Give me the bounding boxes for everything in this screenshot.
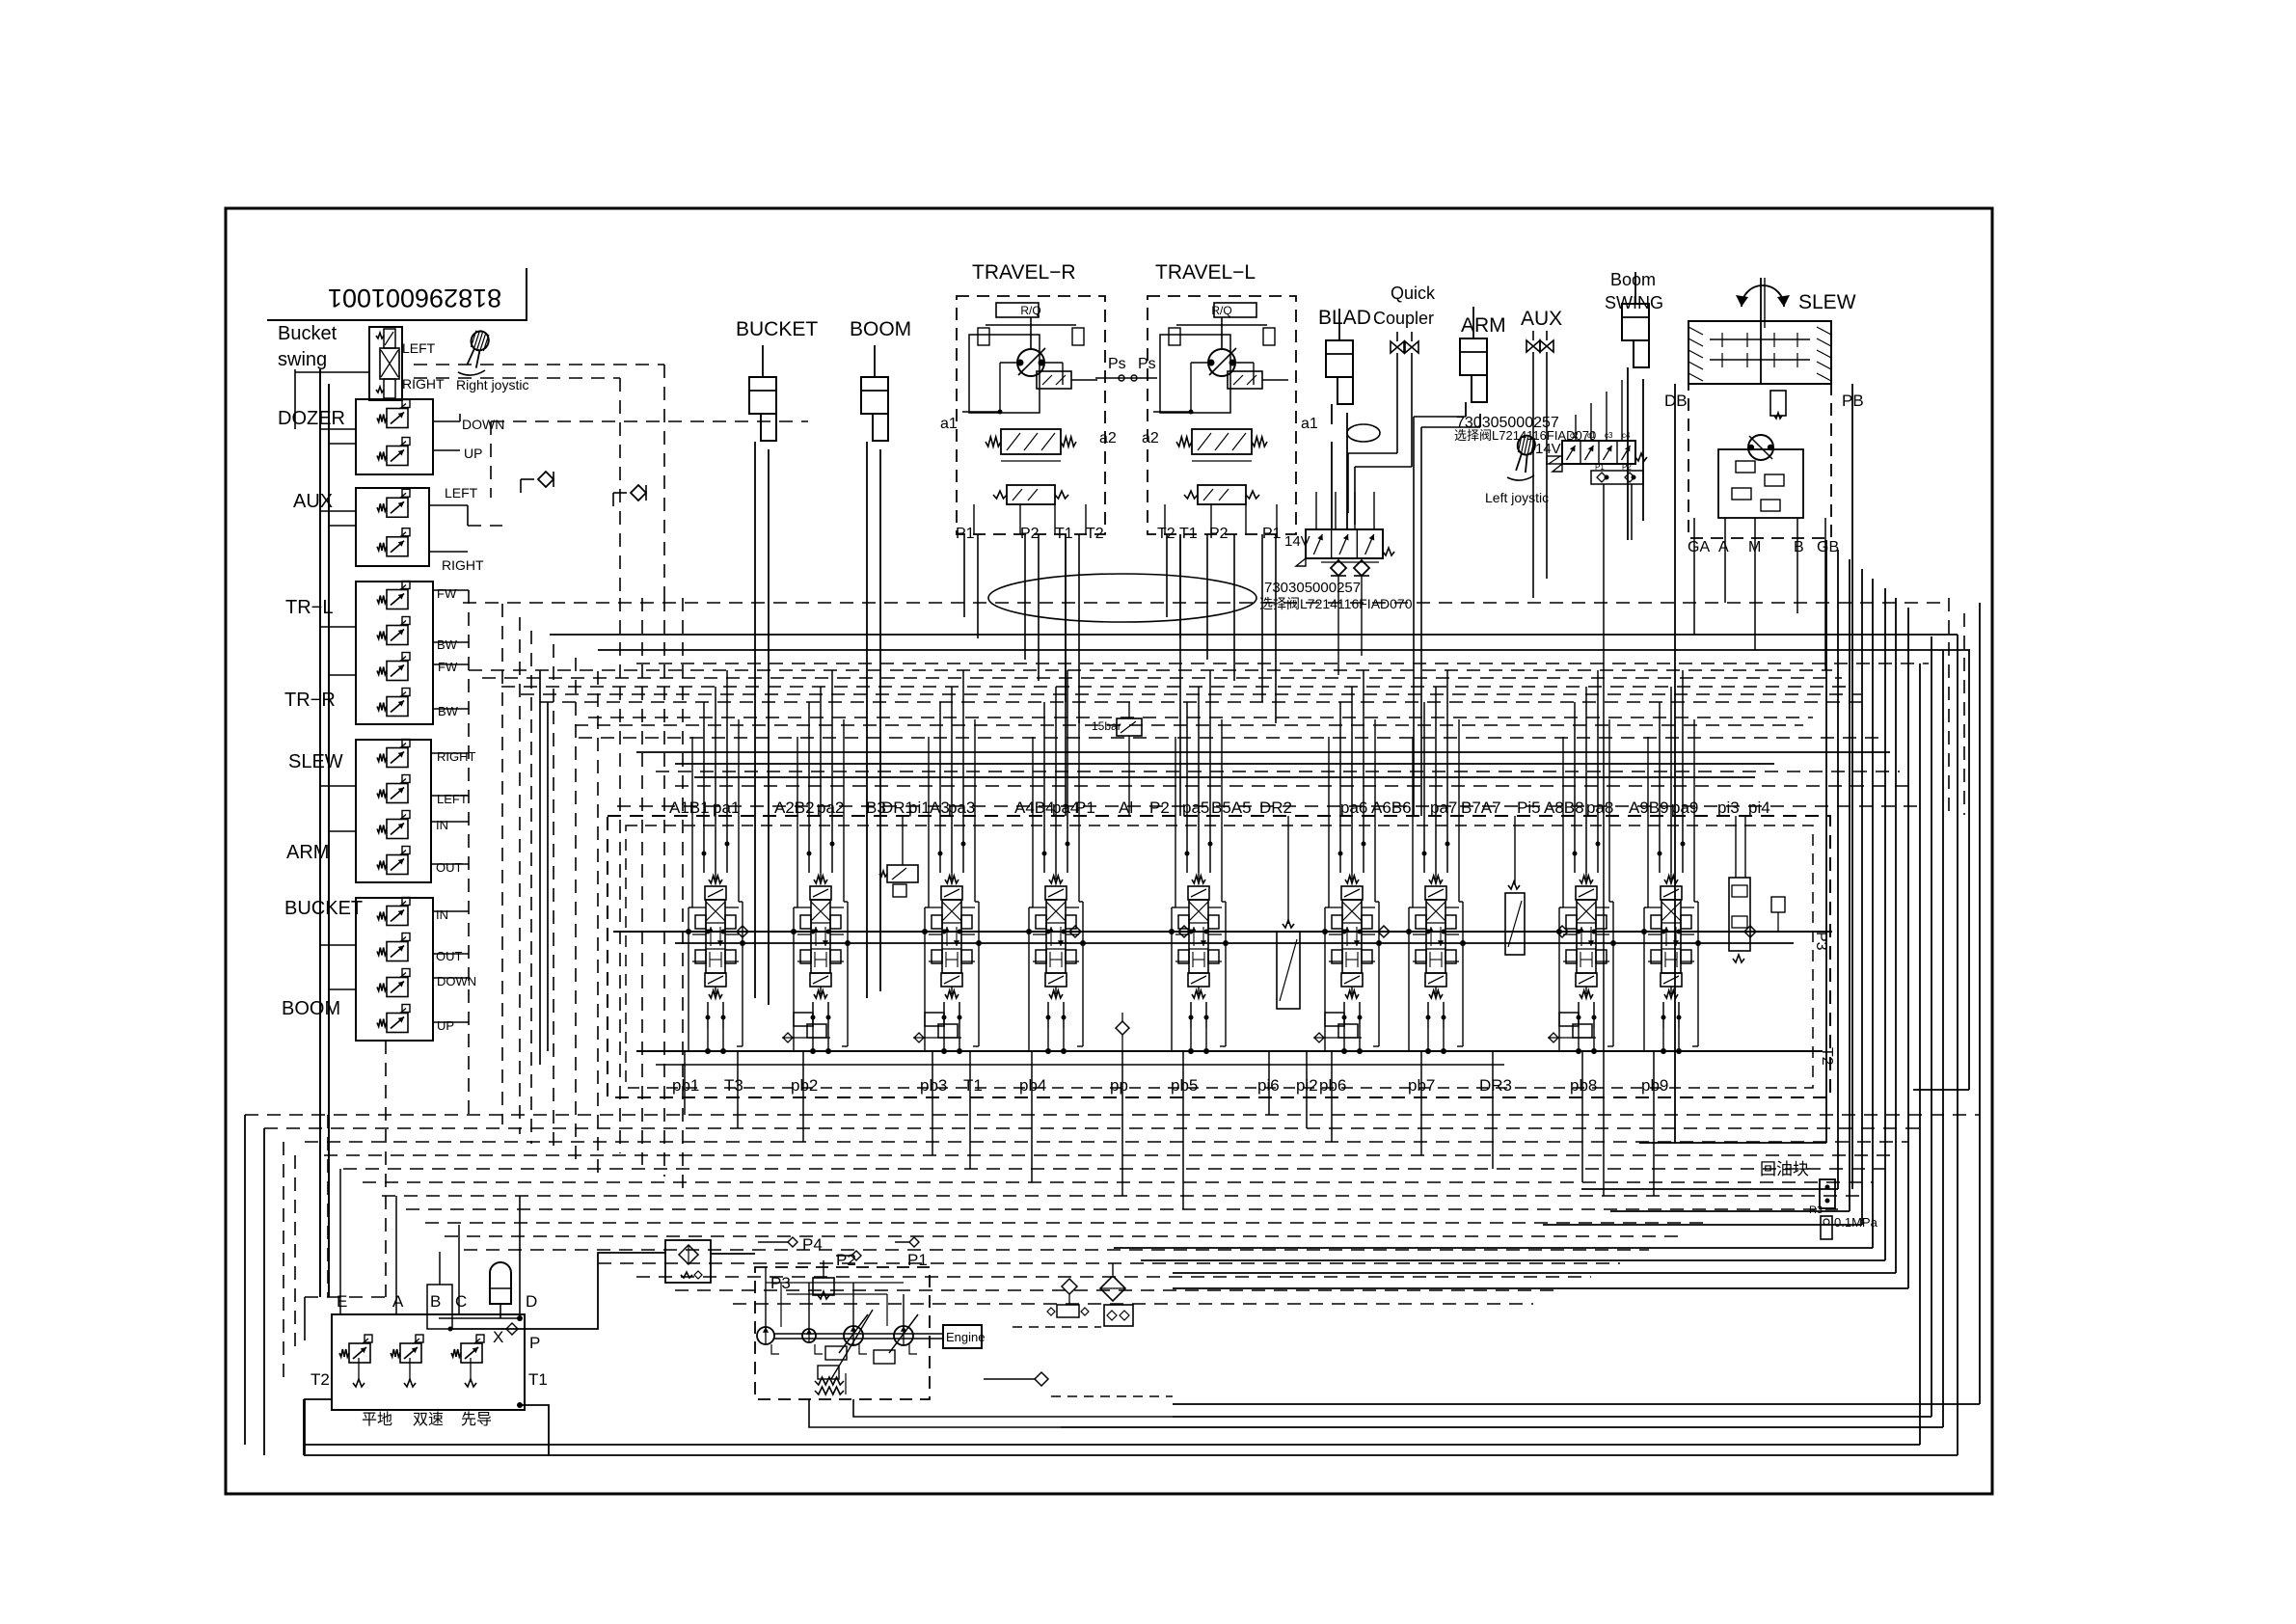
svg-text:BW: BW [437, 637, 458, 652]
svg-text:OUT: OUT [436, 949, 463, 963]
tank box [1104, 1305, 1133, 1326]
upper dashed bus 1 [463, 602, 1948, 604]
Engine box [943, 1325, 982, 1348]
block bottom line [332, 1409, 525, 1411]
svg-text:TR−R: TR−R [284, 690, 336, 711]
svg-text:c4: c4 [1622, 431, 1631, 440]
main spool valve section 4 [1049, 876, 1063, 883]
blad cylinder [1338, 309, 1340, 340]
svg-text:B5A5: B5A5 [1211, 798, 1252, 817]
main spool valve section 6 [1345, 876, 1359, 883]
section bottom relief clusters [794, 1013, 813, 1026]
quick coupler lines [1396, 353, 1398, 453]
svg-text:Boom: Boom [1610, 270, 1656, 289]
main spool valve section 5 [1192, 876, 1205, 883]
svg-text:pb6: pb6 [1319, 1076, 1346, 1095]
svg-text:DOWN: DOWN [437, 974, 476, 988]
block feed E from bundle [339, 1169, 341, 1314]
slew rotation circle [1742, 285, 1784, 307]
right band elbow verticals [1968, 650, 1970, 1090]
svg-text:BOOM: BOOM [850, 318, 911, 340]
wires travel pilots [433, 589, 469, 591]
dashed vertical pilot drop b [619, 378, 621, 598]
check valve pilot2 [631, 485, 646, 501]
svg-text:P2: P2 [1020, 526, 1040, 542]
upper manifold top feeds [1575, 415, 1577, 441]
svg-text:730305000257: 730305000257 [1264, 580, 1361, 596]
left bus vertical line A [319, 369, 321, 1297]
svg-text:pb9: pb9 [1641, 1076, 1668, 1095]
svg-text:P1: P1 [1075, 798, 1095, 817]
upper solid bus 4 [675, 763, 1774, 765]
blad small ellipse [1347, 424, 1380, 442]
svg-text:DOZER: DOZER [278, 408, 345, 429]
bottom left rail down [303, 1399, 305, 1455]
svg-text:OUT: OUT [436, 860, 463, 875]
main spool valve section 7 [1429, 876, 1443, 883]
dashed line dozer DOWN [491, 420, 808, 422]
svg-text:LEFT: LEFT [402, 340, 436, 356]
wires bucket/boom pilots [433, 910, 469, 912]
svg-text:AUX: AUX [1521, 308, 1562, 330]
travel left motor unit [1148, 296, 1296, 534]
svg-text:SLEW: SLEW [288, 751, 343, 772]
svg-text:a2: a2 [1142, 430, 1159, 447]
svg-text:A: A [392, 1292, 404, 1311]
anti-cavitation symbol near pp [1116, 1021, 1129, 1035]
pump port check P2 [851, 1251, 861, 1260]
tank dashed level line [1013, 1326, 1101, 1328]
svg-text:c2: c2 [1570, 431, 1579, 440]
bucket cylinder lines [754, 442, 756, 998]
pb port drop wires [684, 1051, 686, 1105]
pi3 relief [1771, 897, 1785, 912]
tank filter diamond [1100, 1276, 1125, 1301]
svg-text:T1: T1 [1179, 526, 1198, 542]
left bus vertical line B [328, 384, 330, 1297]
svg-text:pb8: pb8 [1570, 1076, 1597, 1095]
quick coupler shutoff valve 1 [1396, 332, 1398, 341]
svg-text:P: P [529, 1334, 540, 1352]
lower manifold outlet drops [1337, 576, 1339, 675]
pump internal manifold lines [766, 1282, 904, 1284]
svg-text:P1: P1 [956, 526, 975, 542]
travel port drop lines [963, 534, 965, 617]
dozer pilot valve block [356, 399, 433, 474]
lower collector line 2 [656, 1064, 1504, 1066]
travel right motor unit [957, 296, 1105, 534]
svg-text:818296001001: 818296001001 [328, 284, 501, 312]
main bus pressure line [613, 931, 1832, 933]
svg-text:swing: swing [278, 349, 327, 370]
svg-text:A8B8: A8B8 [1544, 798, 1584, 817]
svg-text:pb3: pb3 [920, 1076, 947, 1095]
svg-text:TRAVEL−R: TRAVEL−R [972, 261, 1076, 284]
svg-text:UP: UP [464, 446, 482, 461]
main control valve outer dashed boundary [608, 816, 1830, 1097]
svg-text:pa7: pa7 [1430, 798, 1457, 817]
bundle dashed line 15 [733, 1303, 1533, 1305]
svg-text:R/Q: R/Q [1020, 304, 1040, 317]
upper dashed bus 11 [588, 717, 1813, 718]
bundle dashed line 12 [598, 1262, 1620, 1264]
bundle dashed line 1 [245, 1114, 1980, 1116]
wires aux ports [429, 504, 468, 506]
quick coupler shutoff valve 2 [1411, 332, 1413, 341]
svg-text:GB: GB [1817, 539, 1839, 555]
svg-text:ARM: ARM [1461, 314, 1506, 337]
svg-text:C: C [455, 1292, 467, 1311]
svg-text:RIGHT: RIGHT [437, 749, 476, 764]
right joystick icon [463, 329, 491, 369]
bus junction dots [686, 929, 691, 934]
svg-text:DR3: DR3 [1479, 1076, 1512, 1095]
svg-text:Pi5: Pi5 [1517, 798, 1541, 817]
pump control boxes [825, 1346, 847, 1360]
big ellipse pilot group [988, 574, 1256, 622]
pump circle 2 [802, 1329, 816, 1342]
lower manifold feeds [1315, 492, 1317, 529]
boom swing cylinder [1634, 272, 1636, 304]
gear shafts [1710, 338, 1810, 340]
svg-text:T1: T1 [528, 1370, 548, 1389]
dashed vertical pilot drop a [663, 365, 665, 598]
svg-text:TRAVEL−L: TRAVEL−L [1155, 261, 1256, 284]
svg-text:先导: 先导 [461, 1411, 492, 1428]
return loop 7 [1895, 598, 1897, 1273]
bundle dashed line 6 [363, 1181, 1873, 1183]
return deep loop 3 [1942, 650, 1944, 1427]
svg-text:AUX: AUX [293, 491, 333, 512]
return deep loop 4 [1919, 663, 1921, 1445]
filter outlet line [711, 1253, 755, 1255]
solenoid valve A [391, 1349, 400, 1357]
bundle left verticals [244, 1115, 246, 1445]
boom cylinder [874, 345, 876, 377]
upper dashed bus 7 [579, 737, 1880, 739]
boom cylinder lines [866, 442, 868, 998]
pump circle 3 (variable) [844, 1326, 863, 1345]
DR2 pilot spool [1277, 932, 1300, 1009]
Ps connecting line [1095, 377, 1157, 379]
svg-text:FW: FW [437, 586, 457, 601]
svg-text:0.1MPa: 0.1MPa [1834, 1215, 1878, 1230]
accumulator [490, 1262, 511, 1304]
travel deep feed lines [1065, 534, 1067, 816]
pilot dashed drop lines to manifold bundle [468, 590, 470, 1115]
arm cylinder lines [1465, 402, 1467, 417]
valve section lower drop wires [707, 1028, 709, 1051]
lower manifold check valves [1331, 560, 1346, 576]
svg-text:D: D [526, 1292, 537, 1311]
svg-text:BW: BW [438, 704, 459, 718]
svg-text:IN: IN [436, 907, 448, 922]
svg-text:Engine: Engine [946, 1330, 985, 1344]
svg-text:T1: T1 [1055, 526, 1073, 542]
upper solenoid manifold [1562, 441, 1635, 464]
upper dashed bus 12 [575, 724, 1803, 726]
wire bucket-swing to bus [295, 371, 369, 373]
bucket-boom pilot valve block [356, 898, 433, 1041]
svg-text:a1: a1 [1301, 416, 1318, 432]
left joystick icon [1512, 434, 1537, 474]
main spool valve section 1 [709, 876, 722, 883]
Pi5 pilot valve [1505, 893, 1525, 955]
block feed A from bundle [395, 1196, 397, 1314]
slew-arm pilot valve block [356, 740, 431, 882]
slew relief capsule [1770, 391, 1786, 416]
svg-text:Al: Al [1119, 798, 1133, 817]
return loop 5 [1872, 579, 1874, 1248]
svg-text:回油块: 回油块 [1760, 1160, 1809, 1178]
upper solid bus 5 [694, 776, 1755, 778]
svg-text:P2: P2 [1209, 526, 1229, 542]
svg-text:BLAD: BLAD [1318, 307, 1371, 329]
return deep loop 5 [1957, 635, 1958, 1455]
pump shaft [774, 1333, 943, 1335]
slew gearbox [1688, 321, 1831, 384]
bundle dashed line 3 [305, 1141, 1908, 1143]
svg-text:Quick: Quick [1391, 284, 1436, 303]
svg-text:pb5: pb5 [1171, 1076, 1198, 1095]
bucket swing pilot valve V1 [369, 327, 402, 400]
bundle dashed line 11 [464, 1249, 1649, 1251]
svg-text:RIGHT: RIGHT [442, 557, 484, 573]
pilot block dashed top [339, 1313, 525, 1315]
return deep loop 1 [1979, 603, 1981, 1404]
right dashed verticals [1948, 598, 1950, 815]
upper dashed bus 9 [675, 785, 1909, 787]
svg-text:T2: T2 [1086, 526, 1104, 542]
swash plate lines [831, 1310, 873, 1379]
pump circle 1 [757, 1327, 774, 1344]
svg-text:GA: GA [1688, 539, 1710, 555]
pump port check P1 [909, 1237, 919, 1247]
upper dashed bus 13 [636, 663, 1929, 664]
svg-text:pb4: pb4 [1019, 1076, 1046, 1095]
15bar pilot relief valve [1117, 718, 1142, 736]
breather symbol [1062, 1279, 1077, 1294]
svg-text:X: X [493, 1328, 503, 1346]
upper dashed bus 10 [617, 805, 1919, 807]
upper dashed bus 3 [482, 677, 1842, 679]
return oil block [1820, 1179, 1835, 1208]
travel pilot valve block TR [356, 582, 433, 724]
svg-text:E: E [337, 1292, 347, 1311]
title block part number box [267, 268, 527, 320]
aux lines [1532, 352, 1534, 598]
return loop 4 [1861, 569, 1863, 1225]
bundle dashed line 8 [406, 1208, 1838, 1210]
pump relief valve [813, 1278, 834, 1295]
DR1 pilot valve [887, 865, 918, 882]
slew dashed box [1688, 384, 1831, 538]
solenoid valve E [339, 1349, 349, 1357]
svg-text:pp: pp [1110, 1076, 1128, 1095]
check valve pilot1 [538, 472, 554, 487]
svg-text:B: B [430, 1292, 441, 1311]
main valve inner dashed boundary [626, 826, 1813, 1088]
bucket cylinder [762, 345, 764, 377]
arm cylinder [1472, 307, 1474, 338]
svg-text:平地: 平地 [362, 1411, 392, 1428]
svg-text:IN: IN [436, 818, 448, 832]
block feed B [439, 1252, 441, 1285]
svg-text:a2: a2 [1099, 430, 1117, 447]
svg-text:BUCKET: BUCKET [284, 898, 363, 919]
svg-text:R3: R3 [1809, 1204, 1823, 1216]
slew motor circle [1748, 435, 1773, 460]
svg-text:Ps: Ps [1108, 356, 1126, 372]
return loop 6 [1884, 588, 1886, 1260]
upper manifold outlet drops [1603, 484, 1605, 1196]
suction check [1035, 1372, 1048, 1386]
lower solenoid manifold [1306, 529, 1383, 558]
main spool valve section 9 [1664, 876, 1678, 883]
svg-text:DOWN: DOWN [462, 417, 504, 432]
svg-text:T2: T2 [311, 1370, 330, 1389]
return loop 8 [1907, 608, 1909, 1288]
svg-text:B: B [1794, 539, 1804, 555]
return loop 1 [1825, 540, 1827, 1143]
svg-text:SLEW: SLEW [1798, 291, 1856, 313]
svg-text:P1: P1 [1262, 526, 1282, 542]
dashed drop x340 [327, 1115, 329, 1297]
svg-text:DR2: DR2 [1259, 798, 1292, 817]
inline filter box [665, 1240, 711, 1283]
T1 wire down right [520, 1405, 549, 1455]
svg-text:a1: a1 [940, 416, 958, 432]
block feed C from bundle [458, 1225, 460, 1314]
bundle dashed line 13 [636, 1276, 1591, 1278]
svg-text:FW: FW [438, 660, 458, 674]
svg-text:UP: UP [437, 1018, 454, 1033]
upper dashed bus 4 [501, 686, 1851, 688]
svg-text:ARM: ARM [286, 842, 329, 863]
svg-text:R/Q: R/Q [1211, 304, 1231, 317]
upper manifold solenoid foot [1547, 456, 1562, 464]
T2 wire [305, 1399, 332, 1454]
svg-text:pi3: pi3 [1717, 798, 1740, 817]
svg-text:B7A7: B7A7 [1461, 798, 1501, 817]
bank check valves on bus [737, 926, 748, 937]
lower collector line [636, 1050, 1823, 1052]
svg-text:T3: T3 [724, 1076, 743, 1095]
svg-text:P4: P4 [802, 1235, 823, 1254]
block B rect [427, 1285, 452, 1329]
svg-text:LEFT: LEFT [445, 485, 478, 501]
pilot supply block outline [332, 1314, 525, 1410]
svg-text:TR−L: TR−L [285, 597, 333, 618]
wires dozer ports [433, 420, 460, 422]
pilot dashed drops right set [619, 598, 621, 1153]
main spool valve section 2 [814, 876, 827, 883]
check valve near D [506, 1323, 518, 1335]
svg-text:选择阀L7214116FIAD070: 选择阀L7214116FIAD070 [1259, 596, 1413, 611]
solenoid valve C [451, 1349, 461, 1357]
upper manifold lower bracket [1591, 471, 1643, 484]
svg-text:A9B9: A9B9 [1629, 798, 1669, 817]
slew port lines [1693, 518, 1695, 635]
pump circle 4 (variable) [894, 1326, 913, 1345]
dashed pilot line from bucket swing right [414, 364, 664, 365]
aux shutoff valve 2 [1546, 331, 1548, 340]
svg-text:pb1: pb1 [672, 1076, 699, 1095]
dashed region frame around pilot block bottom [385, 1041, 387, 1297]
main spool valve section 8 [1580, 876, 1593, 883]
bundle dashed line 9 [425, 1222, 1707, 1224]
upper dashed bus 6 [540, 701, 1871, 703]
pb drops into bundle [684, 1105, 686, 1115]
bundle dashed line 5 [343, 1168, 1885, 1170]
return deep loop 2 [1931, 636, 1932, 1417]
svg-text:15bar: 15bar [1092, 719, 1121, 733]
wires slew/arm pilots [431, 752, 469, 754]
main spool valve section 3 [945, 876, 959, 883]
bundle dashed line 4 [324, 1154, 1896, 1156]
svg-text:T1: T1 [963, 1076, 983, 1095]
pump outlet lines [765, 1267, 767, 1327]
upper solid bus 1 [550, 634, 1958, 636]
aux pilot valve block [356, 488, 429, 566]
slew inner valve box [1718, 449, 1803, 518]
return loop 2 [1837, 550, 1839, 1189]
pump bottom connection [853, 1399, 1173, 1417]
bundle dashed line 2 [264, 1127, 1920, 1129]
breather box [1057, 1305, 1079, 1317]
aux shutoff valve 1 [1532, 331, 1534, 340]
upper dashed bus 5 [521, 693, 1861, 695]
svg-text:pi4: pi4 [1748, 798, 1770, 817]
left bank solid feeders [539, 670, 541, 1065]
svg-text:A6B6: A6B6 [1371, 798, 1412, 817]
drawing border frame [226, 208, 1992, 1494]
blad cylinder lines [1331, 404, 1333, 424]
svg-text:Bucket: Bucket [278, 323, 338, 344]
upper dashed bus 2 [469, 669, 1832, 671]
wire D to accumulator junction [439, 1317, 520, 1319]
boom swing lines [1627, 367, 1629, 540]
svg-text:14V: 14V [1535, 441, 1561, 457]
svg-text:BOOM: BOOM [282, 998, 340, 1019]
svg-text:A: A [1718, 539, 1729, 555]
svg-text:A4B4: A4B4 [1014, 798, 1055, 817]
svg-text:pi1: pi1 [908, 798, 931, 817]
svg-text:LEFT: LEFT [437, 792, 468, 806]
upper dashed bus 8 [656, 771, 1900, 772]
main bus secondary line [675, 942, 1794, 944]
pump dashed enclosure [755, 1267, 930, 1399]
svg-text:pb2: pb2 [791, 1076, 818, 1095]
bundle dashed line 7 [382, 1195, 1862, 1197]
svg-text:Left joystic: Left joystic [1485, 490, 1549, 505]
slew shaft [1760, 278, 1762, 384]
DB line down [1674, 384, 1676, 1143]
P wire to filter [450, 1253, 665, 1329]
svg-text:pa1: pa1 [713, 798, 740, 817]
wire D drop from bundle [519, 1196, 521, 1318]
pump case drains [771, 1344, 779, 1354]
pressure tap 0.1MPa [1821, 1216, 1832, 1239]
pi3 pi4 selector valve [1729, 878, 1750, 951]
pump port check P4 [788, 1237, 797, 1247]
svg-text:双速: 双速 [413, 1411, 444, 1428]
svg-text:Right joystic: Right joystic [456, 377, 528, 392]
svg-text:BUCKET: BUCKET [736, 318, 818, 340]
svg-text:Coupler: Coupler [1373, 309, 1434, 328]
return loop 3 [1849, 559, 1850, 1211]
bundle dashed line 10 [445, 1235, 1678, 1237]
